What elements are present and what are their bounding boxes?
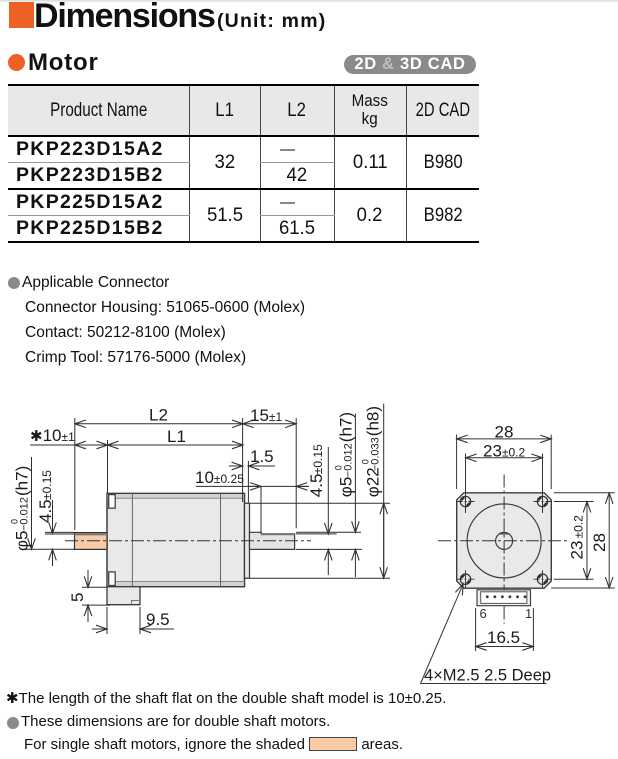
extension line: boss bottom right bbox=[250, 577, 390, 579]
front shaft bbox=[250, 532, 295, 549]
2D & 3D CAD badge bbox=[344, 55, 476, 74]
extension line: square right top bbox=[550, 435, 552, 490]
underline 4xM2.5 bbox=[421, 683, 547, 685]
connector housing (side view) bbox=[107, 587, 140, 605]
extension line: rear shaft bottom left bbox=[25, 548, 75, 550]
svg-text:5: 5 bbox=[68, 593, 87, 602]
front view connector housing bbox=[477, 590, 531, 606]
svg-text:L2: L2 bbox=[149, 406, 168, 425]
label φ22 h8 bbox=[361, 406, 383, 497]
screw hole bottom-left bbox=[457, 570, 475, 588]
dimension 1.5 bbox=[229, 465, 243, 467]
extension line: body bottom left bbox=[82, 586, 107, 588]
svg-text:0: 0 bbox=[361, 459, 371, 464]
svg-text:6: 6 bbox=[480, 606, 487, 621]
body front plate line bbox=[220, 493, 222, 586]
svg-text:±0.2: ±0.2 bbox=[572, 515, 586, 539]
extension line: body left edge bbox=[107, 440, 109, 493]
dimension 16.5 bbox=[476, 646, 534, 648]
dimension L2 bbox=[75, 423, 243, 425]
extension line: front shaft top right bbox=[296, 531, 361, 533]
label 23±0.2 right bbox=[568, 515, 587, 560]
title text bbox=[34, 0, 326, 36]
product table bbox=[8, 84, 479, 243]
label φ5 h7 right bbox=[334, 412, 356, 497]
svg-text:1: 1 bbox=[525, 606, 532, 621]
leader line 4xM2.5 bbox=[421, 584, 464, 684]
extension line: square top right bbox=[554, 492, 615, 494]
dimension 15±1 bbox=[243, 423, 297, 425]
Motor heading bbox=[28, 49, 99, 77]
extension line: hole right vertical bbox=[542, 454, 544, 514]
dimension 23 right bbox=[586, 502, 588, 580]
rear shaft (shaded, double shaft only) bbox=[75, 533, 108, 550]
front view connector inner bbox=[481, 592, 527, 604]
front pilot boss bbox=[245, 503, 250, 578]
svg-text:28: 28 bbox=[590, 533, 609, 552]
body bottom lamination strip bbox=[108, 582, 244, 586]
dimension 4.5±0.15 (right) bbox=[327, 447, 329, 534]
dimension φ22 bbox=[383, 404, 385, 504]
svg-text:9.5: 9.5 bbox=[146, 610, 170, 629]
dimension L1 bbox=[108, 444, 244, 446]
extension line: connector right bbox=[532, 608, 534, 651]
svg-text:φ5: φ5 bbox=[337, 477, 356, 497]
svg-text:−0.012: −0.012 bbox=[19, 497, 31, 531]
svg-text:±0.15: ±0.15 bbox=[311, 444, 325, 474]
extension line: hole left vertical bbox=[465, 454, 467, 514]
connector housing line bbox=[25, 299, 305, 317]
connector step detail bbox=[132, 601, 141, 605]
svg-text:−0.012: −0.012 bbox=[343, 443, 355, 477]
svg-text:L1: L1 bbox=[167, 427, 186, 446]
svg-text:4.5: 4.5 bbox=[307, 474, 326, 498]
svg-text:0: 0 bbox=[10, 519, 20, 524]
svg-text:23: 23 bbox=[568, 541, 587, 560]
motor body (side view) bbox=[107, 493, 245, 586]
connector pins bbox=[486, 595, 526, 598]
front view horizontal centerline bbox=[438, 540, 567, 542]
body rear plate line bbox=[131, 493, 133, 586]
front view body square bbox=[457, 493, 552, 588]
footnote bullet bbox=[7, 717, 19, 729]
svg-text:(h7): (h7) bbox=[337, 412, 356, 442]
extension line: front shaft tip bbox=[295, 418, 297, 528]
dimension 4.5±0.15 (left) bbox=[52, 500, 54, 534]
extension line: boss face bbox=[247, 461, 249, 503]
dimension 28 right bbox=[608, 493, 610, 588]
svg-text:φ5: φ5 bbox=[13, 531, 32, 551]
dimension 23 top bbox=[466, 457, 543, 459]
extension line: square left top bbox=[456, 435, 458, 490]
svg-text:28: 28 bbox=[495, 423, 514, 442]
svg-text:−0.033: −0.033 bbox=[370, 437, 382, 471]
bottom-left slot bbox=[109, 572, 116, 586]
applicable connector bullet bbox=[8, 277, 20, 289]
label 4.5±0.15 right bbox=[307, 444, 326, 497]
dimension 5 bbox=[87, 570, 89, 587]
svg-text:16.5: 16.5 bbox=[487, 628, 520, 647]
screw hole bottom-right bbox=[534, 570, 552, 588]
svg-text:15±1: 15±1 bbox=[250, 406, 283, 425]
screw hole top-left bbox=[457, 496, 475, 506]
extension line: connector bottom left bbox=[82, 604, 110, 606]
dimension 10±0.25 bbox=[196, 485, 309, 487]
extension line: connector left bbox=[475, 608, 477, 651]
front shaft flat edge bbox=[261, 533, 294, 535]
footnote double shaft line bbox=[21, 713, 330, 730]
footnote single shaft line bbox=[24, 736, 403, 753]
extension line: flat start bbox=[260, 486, 262, 533]
svg-text:10±0.25: 10±0.25 bbox=[195, 468, 244, 487]
svg-text:0: 0 bbox=[334, 465, 344, 470]
svg-text:4.5: 4.5 bbox=[36, 499, 55, 523]
svg-text:✱10±1: ✱10±1 bbox=[30, 426, 75, 445]
rear shaft flat edge bbox=[75, 533, 108, 535]
side view centerline bbox=[65, 540, 311, 542]
orange title square bbox=[9, 2, 34, 28]
extension line: boss top right bbox=[250, 502, 390, 504]
extension line: front shaft bottom right bbox=[296, 548, 362, 550]
shaft flat chord bbox=[499, 533, 509, 535]
extension line: rear shaft top left bbox=[45, 531, 75, 533]
svg-text:4×M2.5 2.5 Deep: 4×M2.5 2.5 Deep bbox=[424, 667, 551, 685]
Motor bullet bbox=[8, 54, 25, 71]
dimension φ5 (right) bbox=[354, 414, 356, 533]
extension line: rear shaft end bbox=[74, 418, 76, 530]
technical drawing bbox=[0, 385, 618, 690]
label 4.5±0.15 left bbox=[36, 470, 55, 523]
extension line: body right edge bbox=[242, 418, 244, 502]
label φ5 h7 left bbox=[10, 466, 32, 551]
footnote asterisk line bbox=[6, 689, 446, 707]
applicable connector heading bbox=[22, 274, 169, 292]
label 28 right bbox=[590, 533, 609, 552]
pilot circle bbox=[467, 504, 541, 578]
extension line: square bottom right bbox=[551, 587, 615, 589]
front view vertical centerline bbox=[503, 475, 505, 624]
top-left slot bbox=[109, 495, 116, 509]
svg-text:(h7): (h7) bbox=[13, 466, 32, 496]
extension line: connector right below bbox=[139, 607, 141, 634]
dimension 28 top bbox=[457, 438, 552, 440]
crimp tool line bbox=[25, 349, 246, 367]
extension line: hole row right lower bbox=[554, 578, 594, 580]
svg-text:±0.15: ±0.15 bbox=[40, 470, 54, 500]
extension line: rear flat left bbox=[45, 533, 75, 535]
extension line: body left below bbox=[106, 607, 108, 634]
svg-text:1.5: 1.5 bbox=[250, 447, 274, 466]
screw hole top-right bbox=[534, 496, 552, 506]
dimension *10±1 bbox=[30, 444, 75, 446]
title bar bbox=[0, 0, 618, 3]
shaft circle bbox=[496, 532, 513, 549]
extension line: front flat surface right bbox=[296, 533, 337, 535]
svg-text:23±0.2: 23±0.2 bbox=[483, 441, 526, 460]
body top lamination strip bbox=[108, 494, 244, 498]
svg-text:(h8): (h8) bbox=[364, 406, 383, 436]
contact line bbox=[25, 324, 226, 342]
dimension 9.5 bbox=[92, 628, 107, 630]
dimension φ5 (left) bbox=[31, 457, 33, 549]
extension line: hole row right upper bbox=[554, 501, 594, 503]
